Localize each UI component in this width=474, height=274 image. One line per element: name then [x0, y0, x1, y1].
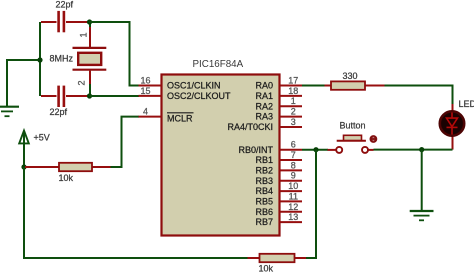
wire +5V junction down to bottom rail: [24, 167, 248, 258]
pin name RB7: [255, 217, 273, 227]
node junction +5V/R1: [21, 164, 26, 169]
svg-text:12: 12: [288, 202, 298, 212]
svg-text:11: 11: [289, 191, 298, 201]
pin name RB1: [255, 155, 273, 165]
svg-text:10k: 10k: [259, 264, 274, 274]
value label 10k (R1): [59, 173, 74, 183]
value label 22pf (top): [56, 0, 74, 10]
node junction LED/ground: [419, 147, 424, 152]
pin name OSC1/CLKIN: [167, 81, 221, 91]
svg-text:RB5: RB5: [255, 197, 273, 207]
svg-text:OSC2/CLKOUT: OSC2/CLKOUT: [167, 91, 231, 101]
svg-text:RA2: RA2: [255, 101, 273, 111]
wire button to LED/ground junction: [374, 149, 453, 151]
svg-text:RB6: RB6: [255, 207, 273, 217]
pin name RB6: [255, 207, 273, 217]
value label 330: [343, 71, 358, 81]
svg-text:10k: 10k: [59, 173, 74, 183]
svg-text:+5V: +5V: [34, 133, 50, 143]
pin number 1: [291, 96, 296, 106]
svg-text:RA3: RA3: [255, 112, 273, 122]
svg-text:2: 2: [77, 80, 87, 85]
pin 8 stub RB2: [280, 169, 303, 171]
label Button: [340, 121, 366, 131]
svg-text:RA0: RA0: [255, 81, 273, 91]
pin 10 stub RB4: [280, 190, 303, 192]
pin number 18: [288, 86, 298, 96]
pin name RB5: [255, 197, 273, 207]
pin number 15: [140, 86, 150, 96]
pin name RA1: [255, 91, 273, 101]
button SW1: [328, 135, 378, 153]
pin number 17: [288, 76, 298, 86]
pin 7 stub RB1: [280, 159, 303, 161]
pin 16 stub OSC1: [139, 85, 162, 87]
value label 22pf (bottom): [50, 107, 68, 117]
crystal pin number 2: [77, 80, 87, 85]
svg-text:2: 2: [291, 107, 296, 117]
capacitor C2 22pf (bottom): [41, 86, 90, 107]
pin name RB2: [255, 166, 273, 176]
pin name OSC2/CLKOUT: [167, 91, 231, 101]
wire RB0 junction down to bottom rail: [306, 150, 316, 258]
svg-text:1: 1: [79, 32, 89, 37]
node junction C2/X1/OSC2: [87, 93, 92, 98]
pin 12 stub RB6: [280, 211, 303, 213]
svg-text:18: 18: [288, 86, 298, 96]
wire junction down to ground: [421, 150, 423, 211]
svg-text:15: 15: [140, 86, 150, 96]
pin number 11: [289, 191, 298, 201]
svg-text:RA4/T0CKI: RA4/T0CKI: [227, 122, 273, 132]
node junction RB0/R3: [313, 147, 318, 152]
pin number 16: [140, 76, 150, 86]
pin number 7: [291, 150, 296, 160]
capacitor C1 22pf (top): [41, 11, 90, 32]
pin 17 stub RA0: [280, 85, 303, 87]
pin 6 stub RB0: [280, 149, 303, 151]
node junction rail/ground: [37, 57, 42, 62]
crystal X1 8MHz: [73, 22, 107, 95]
pin number 9: [291, 171, 296, 181]
svg-text:RA1: RA1: [255, 91, 273, 101]
value label 10k (R3): [259, 264, 274, 274]
svg-text:RB2: RB2: [255, 166, 273, 176]
pin name RA4/T0CKI: [227, 122, 273, 132]
wire left rail connecting C1 and C2 left pins: [39, 22, 41, 96]
pin number 8: [291, 160, 296, 170]
pin number 6: [291, 140, 296, 150]
svg-text:7: 7: [291, 150, 296, 160]
pin 9 stub RB3: [280, 180, 303, 182]
pin number 12: [288, 202, 298, 212]
svg-text:4: 4: [143, 107, 148, 117]
svg-text:13: 13: [288, 212, 298, 222]
node junction C1/X1 top: [87, 19, 92, 24]
pin name RB0/INT: [238, 145, 273, 155]
resistor R3 10k (bottom): [248, 254, 307, 262]
ground (right): [410, 211, 434, 220]
pin name RA0: [255, 81, 273, 91]
svg-text:9: 9: [291, 171, 296, 181]
LED D1: [440, 104, 464, 150]
svg-text:LED: LED: [459, 99, 474, 109]
svg-text:3: 3: [291, 117, 296, 127]
svg-text:16: 16: [140, 76, 150, 86]
pin number 4: [143, 107, 148, 117]
wire junction bottom to OSC2: [90, 95, 140, 97]
ground (left): [0, 107, 19, 117]
svg-text:OSC1/CLKIN: OSC1/CLKIN: [167, 81, 221, 91]
pin name MCLR with overline: [167, 113, 194, 124]
wire RB0 to button: [302, 149, 328, 151]
pin 13 stub RB7: [280, 221, 303, 223]
pin name RA2: [255, 101, 273, 111]
pin 11 stub RB5: [280, 200, 303, 202]
pin name RA3: [255, 112, 273, 122]
resistor R2 330: [325, 81, 385, 89]
wire R1 to MCLR: [111, 117, 140, 167]
label +5V: [34, 133, 50, 143]
pin number 2: [291, 107, 296, 117]
wire RA0 to R2: [302, 85, 325, 87]
svg-text:Button: Button: [340, 121, 366, 131]
pin name RB3: [255, 176, 273, 186]
svg-text:RB4: RB4: [255, 186, 273, 196]
wire R2 to LED: [385, 86, 453, 106]
resistor R1 10k (MCLR pullup): [25, 163, 111, 171]
pin 18 stub RA1: [280, 95, 303, 97]
wire from rail to ground: [7, 60, 40, 106]
svg-text:6: 6: [291, 140, 296, 150]
value label 8MHz: [50, 54, 74, 64]
svg-text:17: 17: [288, 76, 298, 86]
pin name RB4: [255, 186, 273, 196]
svg-text:RB7: RB7: [255, 217, 273, 227]
label PIC16F84A: [193, 59, 244, 70]
svg-text:22pf: 22pf: [56, 0, 74, 10]
svg-text:8MHz: 8MHz: [50, 54, 74, 64]
svg-text:1: 1: [291, 96, 296, 106]
pin number 10: [288, 181, 298, 191]
IC U1 PIC16F84A body: [162, 75, 280, 236]
pin number 13: [288, 212, 298, 222]
svg-text:10: 10: [288, 181, 298, 191]
label LED: [459, 99, 474, 109]
pin 2 stub RA3: [280, 116, 303, 118]
pin 15 stub OSC2: [139, 95, 162, 97]
crystal pin number 1: [79, 32, 89, 37]
pin 3 stub RA4: [280, 126, 303, 128]
svg-text:8: 8: [291, 160, 296, 170]
svg-text:RB3: RB3: [255, 176, 273, 186]
pin 4 stub MCLR: [139, 116, 162, 118]
svg-text:PIC16F84A: PIC16F84A: [193, 59, 244, 70]
svg-text:RB1: RB1: [255, 155, 273, 165]
svg-text:MCLR: MCLR: [167, 113, 193, 123]
svg-text:22pf: 22pf: [50, 107, 68, 117]
power +5V: [19, 131, 29, 167]
wire junction top to OSC1: [90, 22, 140, 86]
svg-text:RB0/INT: RB0/INT: [238, 145, 273, 155]
pin 1 stub RA2: [280, 105, 303, 107]
pin number 3: [291, 117, 296, 127]
svg-text:330: 330: [343, 71, 358, 81]
